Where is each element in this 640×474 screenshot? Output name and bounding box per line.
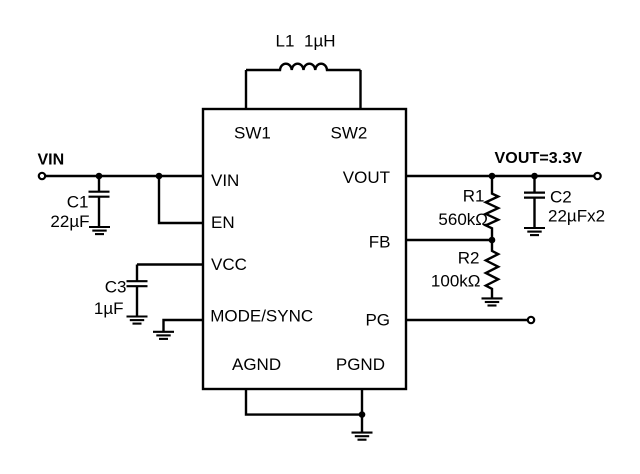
wire EN drop	[159, 176, 203, 223]
inductor L1	[246, 64, 361, 70]
svg-text:560kΩ: 560kΩ	[438, 210, 488, 229]
wire PG	[406, 319, 528, 321]
ground under C3	[127, 317, 148, 324]
node junction FB	[489, 237, 496, 244]
svg-text:VCC: VCC	[211, 255, 247, 274]
svg-text:L1: L1	[276, 32, 295, 51]
capacitor C3	[136, 265, 138, 282]
svg-text:VIN: VIN	[38, 152, 65, 169]
node VIN terminal	[39, 173, 45, 179]
svg-text:22µF: 22µF	[50, 212, 89, 231]
ground under R2	[482, 298, 503, 305]
wire VOUT	[406, 175, 594, 177]
node junction C2	[531, 173, 538, 180]
resistor R1	[486, 176, 498, 240]
svg-text:R2: R2	[458, 249, 480, 268]
resistor R2	[486, 240, 498, 298]
node junction R1	[489, 173, 496, 180]
node junction C1	[96, 173, 103, 180]
wire SW1 vertical	[245, 70, 247, 109]
wire VIN horizontal	[46, 175, 203, 177]
svg-text:PGND: PGND	[336, 355, 385, 374]
wire SW2 vertical	[359, 70, 361, 109]
wire FB	[406, 239, 492, 241]
svg-text:C3: C3	[105, 278, 127, 297]
svg-text:EN: EN	[211, 213, 235, 232]
wire PGND drop	[361, 389, 363, 433]
node junction PGND	[359, 411, 366, 418]
ground under C1	[89, 227, 110, 234]
node PG terminal	[528, 317, 534, 323]
svg-text:1µH: 1µH	[304, 32, 336, 51]
svg-text:SW1: SW1	[234, 124, 271, 143]
wire AGND drop	[246, 389, 362, 415]
svg-text:C1: C1	[67, 193, 89, 212]
ground MODE/SYNC	[153, 332, 174, 339]
svg-text:VOUT: VOUT	[343, 168, 390, 187]
ground PGND	[352, 433, 373, 440]
svg-text:R1: R1	[463, 187, 485, 206]
svg-text:22µFx2: 22µFx2	[548, 207, 605, 226]
op-amp U1 IC body	[203, 109, 406, 389]
node junction EN	[156, 173, 163, 180]
node VOUT terminal	[594, 173, 600, 179]
ground under C2	[524, 228, 545, 235]
wire MODE/SYNC	[164, 320, 204, 332]
svg-text:AGND: AGND	[232, 355, 281, 374]
svg-text:VOUT=3.3V: VOUT=3.3V	[495, 150, 583, 167]
svg-text:VIN: VIN	[211, 171, 239, 190]
svg-text:100kΩ: 100kΩ	[431, 272, 481, 291]
svg-text:SW2: SW2	[331, 124, 368, 143]
svg-text:PG: PG	[365, 311, 390, 330]
wire VCC	[137, 263, 203, 265]
svg-text:1µF: 1µF	[94, 299, 124, 318]
capacitor C1	[98, 176, 100, 192]
svg-text:C2: C2	[550, 188, 572, 207]
capacitor C2	[533, 176, 535, 193]
svg-text:FB: FB	[369, 233, 391, 252]
svg-text:MODE/SYNC: MODE/SYNC	[210, 307, 313, 326]
